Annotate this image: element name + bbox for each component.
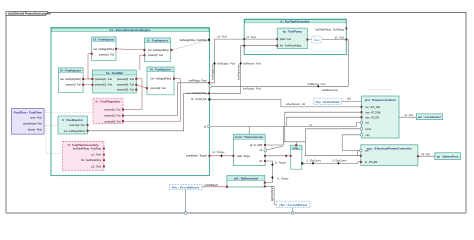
svg-text:fp : FuelPump: fp : FuelPump (283, 30, 302, 34)
svg-text:acl : Accelerator: acl : Accelerator (418, 115, 442, 119)
svg-text:ice : InternalCombustionEngine: ice : InternalCombustionEngine (110, 28, 151, 32)
svg-text:tq, t1, tDiff: tq, t1, tDiff (250, 144, 262, 147)
svg-text:fuelTankFitting : FuelFitting: fuelTankFitting : FuelFitting (315, 29, 344, 32)
svg-text:lfw : FrontWheel: lfw : FrontWheel (172, 186, 199, 190)
svg-text:f3 : FuelInjector: f3 : FuelInjector (93, 37, 115, 41)
svg-text:p1 : Fuel: p1 : Fuel (92, 154, 102, 157)
svg-text:tq : PS_EM: tq : PS_EM (365, 161, 377, 164)
svg-text:f4 : FuelInjector: f4 : FuelInjector (150, 68, 172, 72)
svg-text:Fuel: Fuel (314, 38, 320, 42)
svg-text:fret : FuelPumpFitting: fret : FuelPumpFitting (81, 159, 102, 162)
svg-text:fuelReturnLine: fuelReturnLine (322, 89, 338, 92)
svg-text:pdisch : Fuel: pdisch : Fuel (280, 38, 291, 41)
svg-text:flowrate : Real: flowrate : Real (28, 128, 42, 131)
svg-text:pressure[1] : Fuel: pressure[1] : Fuel (148, 54, 163, 57)
svg-text:fa : <CAN_bus: fa : <CAN_bus (191, 98, 207, 101)
svg-text:ibd [Block] PowerSubsystem: ibd [Block] PowerSubsystem (8, 12, 51, 16)
svg-text:ft : FuelTankAssembly: ft : FuelTankAssembly (281, 19, 310, 23)
svg-text:ctrl: ctrl (365, 150, 369, 153)
svg-text:press : Real: press : Real (31, 116, 42, 119)
svg-text:pressure[2] : Fuel: pressure[2] : Fuel (95, 84, 112, 87)
svg-text:fr : FuelRegulator: fr : FuelRegulator (96, 100, 122, 104)
svg-text:fre : FuelRail: fre : FuelRail (106, 71, 123, 75)
svg-text:pressure[1] : Fuel: pressure[1] : Fuel (105, 108, 121, 111)
svg-text:p2 : Fuel: p2 : Fuel (335, 36, 345, 39)
svg-text:trsm : Transmission: trsm : Transmission (235, 135, 263, 139)
svg-text:bp : bat: bp : bat (422, 153, 430, 156)
svg-text:fuel : fuelSupplyFitting: fuel : fuelSupplyFitting (60, 78, 81, 81)
svg-text:p1 : Fuel: p1 : Fuel (218, 36, 228, 39)
svg-text:fuelReturn : Fuel: fuelReturn : Fuel (308, 83, 326, 86)
svg-text:crankshaft : Torque: crankshaft : Torque (186, 155, 208, 158)
svg-text:fuel : fuelSupplyFitting: fuel : fuelSupplyFitting (94, 48, 115, 51)
svg-text:leftHalfShaft: leftHalfShaft (205, 184, 218, 187)
svg-text:injectorDemand : Real: injectorDemand : Real (23, 122, 42, 125)
svg-text:fuelFitting : Fuel: fuelFitting : Fuel (189, 80, 207, 83)
svg-text:fuelSupply : Fuel: fuelSupply : Fuel (217, 63, 235, 66)
svg-text:fi : FuelInjector: fi : FuelInjector (62, 118, 84, 122)
svg-text:nsp: nsp (366, 134, 371, 137)
svg-text:fuelReturnLine: fuelReturnLine (238, 64, 241, 80)
svg-text:pressure[1] : Fuel: pressure[1] : Fuel (151, 87, 166, 90)
svg-text:p2 : Fuel: p2 : Fuel (92, 165, 102, 168)
svg-text:fuel : fuelSupplyFitting: fuel : fuelSupplyFitting (187, 92, 207, 95)
svg-text:bkp : BrakePedal: bkp : BrakePedal (316, 100, 340, 104)
svg-text:FuelFlow : FuelFlow: FuelFlow : FuelFlow (14, 110, 43, 114)
svg-text:epc : ElectricalPowerControlle: epc : ElectricalPowerController (367, 146, 413, 150)
svg-text:fuelSupplyLine: fuelSupplyLine (211, 64, 214, 80)
svg-text:shaft : Torque: shaft : Torque (237, 155, 251, 158)
svg-text:pressure[3] : Fuel: pressure[3] : Fuel (117, 78, 134, 81)
svg-text:fuelSupply : Fuel: fuelSupply : Fuel (243, 88, 261, 91)
svg-text:pressure[5] : Fuel: pressure[5] : Fuel (117, 88, 134, 91)
svg-text:pressure[3] : Fuel: pressure[3] : Fuel (105, 120, 121, 123)
svg-text:etsm : IFC_TRSM: etsm : IFC_TRSM (366, 111, 381, 114)
svg-text:p1 : Fuel: p1 : Fuel (247, 36, 257, 39)
svg-text:t2 : Torque: t2 : Torque (275, 161, 287, 164)
svg-text:f2 : FuelInjector: f2 : FuelInjector (60, 68, 82, 72)
svg-text:ice : IFC_ICE: ice : IFC_ICE (366, 106, 381, 109)
svg-text:eepc : IFC_EPC: eepc : IFC_EPC (366, 116, 380, 119)
svg-text:bp : BatteryPack: bp : BatteryPack (437, 155, 459, 159)
svg-text:pressure[4] : Fuel: pressure[4] : Fuel (117, 84, 134, 87)
svg-text:pcu : PowerControlUnit: pcu : PowerControlUnit (365, 98, 396, 102)
svg-text:rightHalfShaft: rightHalfShaft (271, 186, 274, 201)
svg-text:pressure[1] : Fuel: pressure[1] : Fuel (95, 78, 112, 81)
svg-text:fuelSupplyFitting : FuelFittin: fuelSupplyFitting : FuelFitting (180, 39, 208, 42)
svg-text:ft : FuelTankAssembly: ft : FuelTankAssembly (68, 143, 99, 147)
svg-text:pressure[1] : Fuel: pressure[1] : Fuel (66, 84, 81, 87)
svg-text:i2 : ElecCurrent: i2 : ElecCurrent (332, 160, 346, 163)
svg-text:ac : Pos: ac : Pos (405, 114, 414, 117)
svg-text:pressure[1] : Fuel: pressure[1] : Fuel (99, 54, 114, 57)
svg-text:pressure[2] : Fuel: pressure[2] : Fuel (105, 115, 121, 118)
svg-text:rfw : FrontWheel: rfw : FrontWheel (279, 203, 307, 207)
svg-text:emg :: emg : (293, 147, 300, 150)
svg-text:wheelSensor : Vel: wheelSensor : Vel (286, 103, 306, 106)
svg-text:tcmd: tcmd (366, 128, 372, 131)
svg-text:dif : Differential: dif : Differential (234, 176, 258, 180)
svg-text:fuel : fuelSupplyFitting: fuel : fuelSupplyFitting (148, 49, 169, 52)
svg-text:i1 : ElecCurrent: i1 : ElecCurrent (307, 160, 321, 163)
svg-text:fret : FuelPumpFitting: fret : FuelPumpFitting (280, 45, 302, 48)
svg-text:f1 : FuelInjector: f1 : FuelInjector (147, 38, 169, 42)
svg-text:bk1: bk1 (347, 98, 352, 101)
svg-text:fuel : fuelSupplyFitting: fuel : fuelSupplyFitting (151, 78, 172, 81)
svg-text:t1 : Torque: t1 : Torque (277, 178, 289, 181)
svg-text:fuelReturn : Fuel: fuelReturn : Fuel (243, 63, 261, 66)
svg-text:pressure[1] : Fuel: pressure[1] : Fuel (70, 124, 85, 127)
svg-text:fuel : fuelSupplyFitting: fuel : fuelSupplyFitting (64, 130, 85, 133)
svg-text:fuelTankFitting : FuelFlow: fuelTankFitting : FuelFlow (73, 148, 101, 151)
svg-text:p1 : Torque: p1 : Torque (213, 151, 226, 154)
